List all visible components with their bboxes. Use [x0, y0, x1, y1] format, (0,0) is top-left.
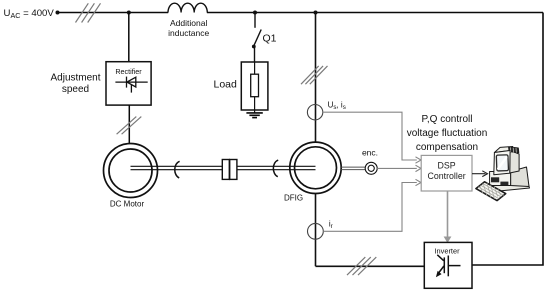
keyboard keys — [478, 183, 504, 199]
ground symbol — [246, 113, 262, 118]
wire: to rectifier — [128, 13, 130, 62]
DFIG inner — [295, 147, 337, 189]
node: source terminal dot — [56, 11, 60, 15]
rotation arc left — [175, 161, 180, 178]
three-phase marks on AC bus — [76, 3, 101, 22]
signal: enc to DSP — [377, 167, 417, 169]
three-phase marks on bottom bus — [347, 257, 376, 275]
measurement node ir — [308, 223, 324, 239]
load internal lead top — [254, 62, 256, 74]
signal: DSP to PC — [472, 173, 486, 175]
inductor: additional inductance — [168, 3, 207, 12]
thyristor symbol — [115, 77, 147, 93]
wire: rectifier to DC motor — [128, 105, 130, 144]
screen — [496, 155, 508, 171]
IGBT symbol — [437, 255, 460, 276]
svg-text:speed: speed — [62, 84, 89, 95]
svg-text:Additional: Additional — [170, 18, 207, 28]
rectifier box — [106, 62, 151, 105]
DFIG outer — [290, 142, 341, 193]
junction: stator bus top — [314, 11, 318, 15]
rotation arc right — [273, 160, 278, 177]
svg-text:Inverter: Inverter — [434, 247, 460, 256]
shaft: motor to DFIG — [131, 166, 316, 169]
shaft stub inside DFIG — [290, 166, 316, 169]
floppy slot — [491, 177, 499, 182]
svg-text:Q1: Q1 — [263, 33, 277, 45]
svg-text:compensation: compensation — [416, 142, 478, 153]
svg-text:Rectifier: Rectifier — [115, 67, 142, 76]
screen glare — [498, 158, 506, 169]
DC-link marks — [117, 117, 142, 135]
signal: DSP to inverter — [447, 191, 449, 237]
svg-text:Load: Load — [214, 79, 238, 91]
switch Q1 blade — [254, 30, 262, 47]
junction: rectifier branch — [127, 11, 131, 15]
wire: top AC bus — [58, 12, 544, 14]
encoder shaft — [341, 167, 365, 170]
junction: Q1 branch — [253, 11, 257, 15]
base unit front — [490, 172, 511, 186]
svg-text:enc.: enc. — [362, 148, 378, 158]
monitor side — [510, 151, 519, 174]
DC motor M1 outer — [104, 144, 158, 198]
resistor inside load — [251, 74, 259, 97]
svg-text:Adjustment: Adjustment — [50, 73, 100, 84]
node: Q1 lower contact dot — [252, 45, 256, 49]
monitor top — [494, 147, 512, 153]
DSP controller box — [421, 155, 472, 191]
wire: bottom bus — [316, 265, 425, 267]
svg-text:DC Motor: DC Motor — [110, 199, 145, 208]
svg-text:P,Q controll: P,Q controll — [422, 114, 473, 125]
shaft coupling — [222, 160, 229, 180]
computer workstation icon — [476, 147, 530, 201]
IGBT emitter arrow — [436, 271, 442, 277]
plinth — [493, 183, 530, 192]
load internal lead bottom — [254, 97, 256, 113]
svg-text:inductance: inductance — [168, 28, 209, 38]
encoder enc. inner — [368, 165, 374, 171]
svg-text:DSP: DSP — [438, 160, 456, 170]
lower slot — [500, 182, 508, 185]
monitor vent — [509, 147, 519, 153]
wire: Q1 upper lead — [254, 13, 256, 28]
encoder enc. outer — [365, 162, 377, 174]
signal: ir to DSP — [323, 183, 417, 232]
wire: inverter to right return — [472, 13, 543, 266]
svg-text:DFIG: DFIG — [284, 194, 303, 203]
measurement node Us,is — [307, 105, 322, 120]
wire: stator bus vertical — [315, 13, 317, 267]
svg-text:voltage fluctuation: voltage fluctuation — [407, 128, 488, 139]
load box — [241, 62, 268, 110]
DC motor M1 inner — [109, 149, 152, 192]
three-phase marks on stator bus — [301, 66, 328, 84]
inverter box — [424, 242, 472, 288]
wire: Q1 to load — [254, 47, 256, 63]
keyboard — [476, 182, 506, 201]
signal: Us,is to DSP — [323, 112, 417, 160]
monitor front face — [494, 151, 510, 175]
svg-text:Controller: Controller — [428, 171, 466, 181]
base unit side — [511, 167, 529, 187]
